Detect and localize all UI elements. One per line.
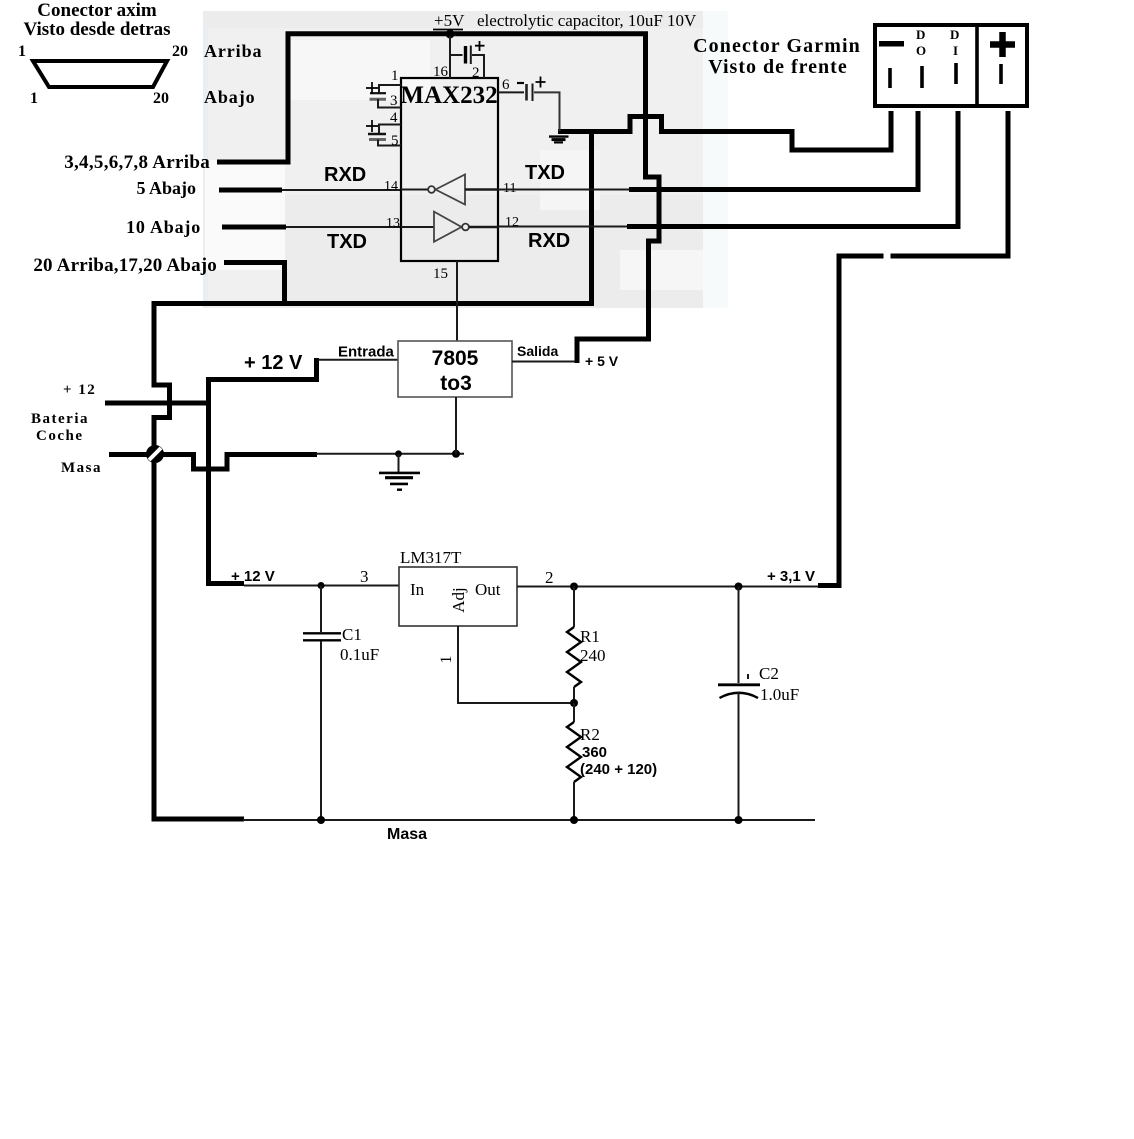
svg-text:20: 20: [153, 90, 169, 107]
wire LM317 +12 thin: [244, 585, 399, 587]
svg-text:3: 3: [390, 93, 398, 109]
node dot R2 bottom: [570, 816, 578, 824]
gray screenshot region behind MAX232: [203, 11, 728, 308]
svg-text:240: 240: [580, 646, 606, 665]
node dot LM317 input / C1 tap: [318, 582, 325, 589]
node dot C2 bottom: [735, 816, 743, 824]
svg-text:Abajo: Abajo: [204, 87, 256, 107]
svg-text:C2: C2: [759, 664, 779, 683]
svg-text:Bateria: Bateria: [31, 411, 89, 427]
Garmin label D I: [950, 27, 959, 58]
svg-text:Visto desde detras: Visto desde detras: [23, 19, 170, 40]
svg-text:+ 3,1 V: + 3,1 V: [767, 568, 815, 585]
node dot R1/R2 junction: [570, 699, 578, 707]
inverter gate lower (13 to 12): [401, 212, 498, 242]
svg-text:Masa: Masa: [387, 826, 427, 843]
wire +5V rail from 3,4,5,6,7,8 Arriba stub up across top down to 7805 salida: [217, 34, 659, 363]
resistor R2: [567, 703, 581, 820]
label +5V: [433, 11, 465, 30]
wire +12 riser to 7805 and LM317: [209, 358, 317, 584]
inverter gate upper (14 to 11): [401, 175, 498, 205]
wire TXD thick to Garmin D O: [629, 111, 918, 190]
svg-text:R1: R1: [580, 627, 600, 646]
svg-text:+ 12: + 12: [63, 382, 96, 398]
connector Garmin box: [875, 25, 1027, 106]
svg-text:Entrada: Entrada: [338, 344, 395, 361]
wire ground net: MAX232 gnd to Garmin minus with hop: [558, 111, 891, 150]
svg-text:RXD: RXD: [528, 230, 570, 252]
ground symbol under 7805: [379, 454, 420, 490]
wire RXD thin to pin 14: [282, 189, 401, 191]
capacitor on pin 6: [498, 77, 560, 132]
svg-text:14: 14: [384, 179, 398, 194]
svg-text:1: 1: [391, 68, 399, 84]
wire bottom masa rail thin: [243, 819, 815, 821]
capacitor C2: [718, 587, 760, 821]
capacitor between pins 4 and 5: [366, 120, 401, 146]
ground symbol MAX232: [549, 137, 569, 143]
svg-text:+ 5 V: + 5 V: [585, 353, 619, 369]
wire battery Masa with dip: [109, 455, 317, 470]
svg-text:Adj: Adj: [449, 587, 468, 613]
svg-text:15: 15: [433, 266, 448, 282]
svg-text:Out: Out: [475, 580, 501, 599]
svg-text:Arriba: Arriba: [204, 41, 262, 61]
regulator 7805 box: [398, 341, 512, 397]
wire Adj pin down: [458, 626, 574, 703]
svg-text:5: 5: [391, 133, 399, 149]
svg-text:(240 + 120): (240 + 120): [580, 761, 657, 778]
wire TXD thin from pin 11: [498, 189, 630, 191]
wire 10 Abajo stub: [222, 225, 286, 230]
svg-text:+5V: +5V: [434, 11, 465, 30]
svg-text:Visto de frente: Visto de frente: [708, 56, 847, 78]
svg-text:2: 2: [472, 65, 480, 81]
resistor R1: [567, 587, 581, 704]
wire pin 16 stub: [449, 36, 451, 78]
svg-text:O: O: [916, 43, 926, 58]
capacitor C1: [303, 586, 341, 821]
svg-text:Coche: Coche: [36, 428, 84, 444]
svg-text:TXD: TXD: [327, 231, 367, 253]
svg-text:12: 12: [505, 215, 519, 230]
svg-text:MAX232: MAX232: [400, 82, 497, 109]
node battery masa connector circle: [146, 445, 164, 463]
regulator LM317 box: [399, 567, 517, 626]
svg-text:360: 360: [582, 744, 607, 761]
node dot 7805 gnd pin: [452, 450, 460, 458]
wire 20 Arriba,17,20 Abajo stub: [224, 263, 285, 305]
node dot C2 top: [735, 583, 743, 591]
connector axim title: [23, 0, 170, 40]
wire LM317 out to +3,1V: [517, 586, 818, 588]
wire 5 Abajo stub: [219, 188, 282, 193]
connector axim trapezoid: [33, 61, 167, 87]
svg-text:Masa: Masa: [61, 460, 102, 476]
svg-text:TXD: TXD: [525, 162, 565, 184]
svg-text:D: D: [916, 27, 925, 42]
wire masa thin to 7805 ground: [316, 453, 464, 455]
svg-text:to3: to3: [440, 372, 472, 395]
wire ground vertical to left rail: [154, 132, 592, 820]
capacitor between pins 16 and 2: [450, 41, 485, 78]
node dot ground symbol tap: [395, 450, 402, 457]
svg-text:D: D: [950, 27, 959, 42]
svg-text:3: 3: [360, 567, 369, 586]
svg-text:RXD: RXD: [324, 164, 366, 186]
svg-text:2: 2: [545, 568, 554, 587]
svg-text:20: 20: [172, 43, 188, 60]
Garmin pin ticks: [890, 63, 1001, 88]
capacitor between pins 1 and 3: [366, 82, 401, 108]
node dot LM317 out: [570, 583, 578, 591]
svg-text:LM317T: LM317T: [400, 548, 462, 567]
wire Garmin plus to +3,1V rail (with small gap): [818, 111, 1008, 586]
wire Entrada thin: [318, 359, 400, 361]
svg-text:C1: C1: [342, 625, 362, 644]
svg-text:16: 16: [433, 64, 449, 80]
svg-text:I: I: [953, 43, 958, 58]
wire 7805 gnd pin: [455, 397, 457, 454]
svg-text:1: 1: [438, 656, 455, 664]
wire RXD thin from pin 12: [498, 226, 628, 228]
svg-text:1: 1: [18, 43, 26, 60]
svg-text:5 Abajo: 5 Abajo: [136, 178, 196, 198]
svg-text:Salida: Salida: [517, 343, 558, 359]
wire RXD thick to Garmin D I: [627, 111, 958, 227]
wire pin 15 down to 7805 box: [456, 261, 458, 341]
svg-text:+ 12 V: + 12 V: [231, 568, 275, 585]
Garmin plus mark: [990, 32, 1015, 57]
svg-text:electrolytic capacitor, 10uF 1: electrolytic capacitor, 10uF 10V: [477, 11, 697, 30]
svg-text:1: 1: [30, 90, 38, 107]
wire battery +12: [105, 401, 208, 406]
node dot C1 bottom: [317, 816, 325, 824]
svg-text:0.1uF: 0.1uF: [340, 645, 379, 664]
svg-text:3,4,5,6,7,8 Arriba: 3,4,5,6,7,8 Arriba: [64, 152, 210, 173]
Garmin minus mark: [879, 41, 904, 47]
svg-text:13: 13: [386, 216, 400, 231]
svg-text:10 Abajo: 10 Abajo: [126, 217, 201, 237]
wire Salida thin: [512, 361, 575, 363]
svg-text:7805: 7805: [432, 347, 479, 370]
node +5V junction dot at pin16: [446, 30, 455, 39]
op-amp U1 MAX232 box: [401, 78, 498, 261]
svg-text:Conector axim: Conector axim: [37, 0, 157, 21]
svg-text:20 Arriba,17,20 Abajo: 20 Arriba,17,20 Abajo: [33, 255, 217, 276]
svg-text:+ 12 V: + 12 V: [244, 352, 303, 374]
svg-text:R2: R2: [580, 725, 600, 744]
svg-text:1.0uF: 1.0uF: [760, 685, 799, 704]
wire TXD thin to pin 13: [286, 226, 401, 228]
svg-text:In: In: [410, 580, 425, 599]
svg-text:Conector Garmin: Conector Garmin: [693, 35, 861, 57]
Garmin label D O: [916, 27, 926, 58]
svg-text:6: 6: [502, 77, 510, 93]
